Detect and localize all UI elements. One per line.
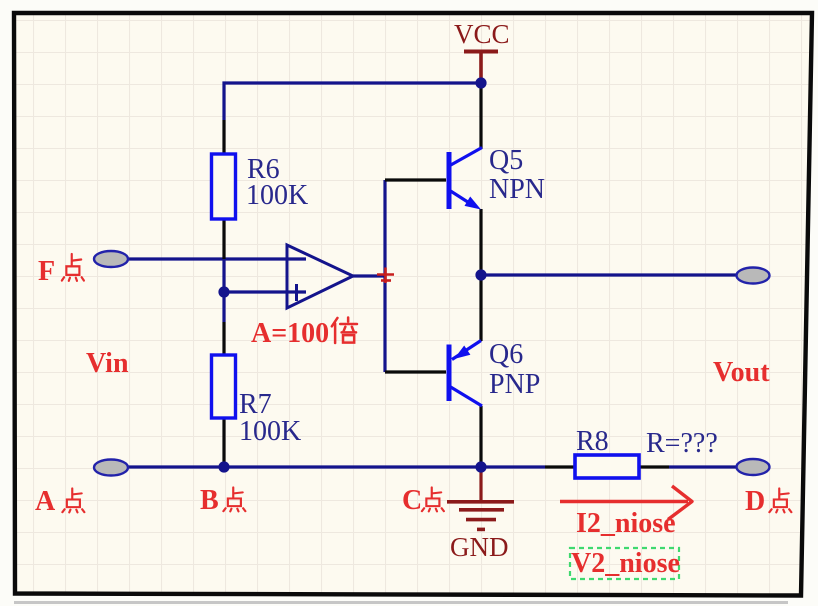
wire: R6 bottom pin bbox=[222, 219, 225, 259]
svg-text:D: D bbox=[745, 486, 765, 517]
ground GND bbox=[447, 469, 514, 562]
wire: output node to Q6 emitter bbox=[479, 275, 482, 341]
wire: R7 bottom pin bbox=[222, 418, 225, 467]
wire: bottom rail right of R8 bbox=[669, 465, 738, 468]
junction at op-amp + input bbox=[218, 286, 229, 297]
junction node B bbox=[218, 461, 229, 472]
svg-text:C: C bbox=[402, 485, 422, 516]
svg-text:F: F bbox=[38, 256, 55, 287]
svg-text:100K: 100K bbox=[239, 416, 301, 447]
transistor Q5 bbox=[449, 145, 545, 210]
label A=100倍 bbox=[251, 317, 357, 349]
wire: node to R7 wire segment bbox=[222, 292, 225, 322]
node label C点 bbox=[402, 485, 444, 516]
resistor R6 bbox=[212, 154, 309, 219]
node label A点 bbox=[35, 486, 84, 517]
svg-text:Vout: Vout bbox=[713, 357, 770, 388]
port pad A bbox=[94, 460, 128, 476]
port pad D bbox=[737, 459, 770, 475]
wire: R8 left pin bbox=[545, 465, 575, 468]
wire: top rail from R6 corner to VCC junction bbox=[224, 83, 481, 120]
wire: output node to Vout port bbox=[481, 273, 738, 276]
wire: Q5 base bbox=[385, 178, 446, 181]
wire: R6 top pin bbox=[222, 120, 225, 154]
svg-text:R=???: R=??? bbox=[646, 428, 718, 459]
svg-text:Q5: Q5 bbox=[489, 145, 523, 176]
svg-text:100K: 100K bbox=[246, 180, 308, 211]
wire: Q6 collector to node C bbox=[479, 406, 482, 467]
node label F点 bbox=[38, 254, 84, 287]
svg-text:Vin: Vin bbox=[86, 348, 129, 379]
svg-text:GND: GND bbox=[450, 532, 509, 562]
wire: Q6 base bbox=[385, 370, 446, 373]
resistor R7 bbox=[212, 355, 302, 447]
wire: node B branch to op-amp non-inverting input bbox=[224, 259, 306, 292]
port pad Vout bbox=[737, 268, 770, 284]
svg-text:PNP: PNP bbox=[489, 369, 540, 400]
power VCC bbox=[454, 19, 510, 83]
wire: F input to op-amp inverting input bbox=[128, 257, 306, 260]
svg-text:I2_niose: I2_niose bbox=[576, 508, 676, 539]
svg-text:Q6: Q6 bbox=[489, 339, 523, 370]
noise source box V2_niose bbox=[570, 548, 680, 579]
wire: VCC junction to Q5 collector bbox=[479, 83, 482, 149]
transistor Q6 bbox=[449, 339, 540, 406]
junction at VCC rail bbox=[475, 77, 486, 88]
junction node C bbox=[475, 461, 486, 472]
port pad F bbox=[94, 251, 128, 267]
svg-text:V2_niose: V2_niose bbox=[571, 548, 680, 579]
junction at output node bbox=[475, 269, 486, 280]
svg-text:A=100: A=100 bbox=[251, 318, 329, 349]
wire: bottom rail left bbox=[128, 465, 545, 468]
svg-text:NPN: NPN bbox=[489, 174, 545, 205]
svg-text:VCC: VCC bbox=[454, 19, 510, 49]
wire: R8 right pin bbox=[639, 465, 669, 468]
svg-text:B: B bbox=[200, 485, 219, 516]
current arrow I2_niose bbox=[560, 486, 692, 539]
error cross at op-amp output bbox=[377, 268, 394, 284]
wire: Q5 emitter to output node bbox=[479, 209, 482, 275]
svg-text:R8: R8 bbox=[576, 426, 609, 457]
wire: op-amp output stub bbox=[353, 274, 385, 277]
wire: R7 top pin bbox=[222, 322, 225, 355]
resistor R8 bbox=[575, 426, 718, 478]
op-amp U1 bbox=[287, 245, 353, 308]
node label B点 bbox=[200, 485, 245, 516]
wire: base bus vertical bbox=[383, 180, 386, 372]
svg-text:A: A bbox=[35, 486, 56, 517]
node label D点 bbox=[745, 486, 791, 517]
